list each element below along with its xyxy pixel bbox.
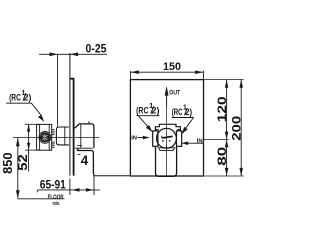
svg-text:80: 80 [215, 146, 229, 165]
150 arrow right [195, 70, 203, 74]
dimension 65-91 line [37, 190, 100, 192]
handle base divider line [80, 124, 82, 148]
svg-text:OUT: OUT [169, 90, 180, 97]
dimension 850 line [17, 138, 19, 198]
120 arrow up [225, 80, 229, 88]
65-91 extension right [93, 176, 95, 195]
plate bottom edge extension to side view [94, 175, 131, 177]
svg-text:IN: IN [131, 136, 137, 142]
65-91 arrow left [72, 188, 80, 192]
svg-text:120: 120 [215, 96, 229, 122]
svg-text:min.: min. [53, 201, 61, 207]
52 arrow down [27, 143, 30, 150]
80 arrow down [225, 168, 229, 176]
svg-text:150: 150 [163, 61, 181, 73]
svg-text:IN: IN [197, 139, 203, 145]
svg-text:4: 4 [81, 153, 89, 168]
leader RC1/2 front-left: underline + arrow [137, 116, 160, 132]
valve bracket left tab [153, 131, 158, 146]
valve bracket top cap [155, 124, 180, 131]
65-91 extension left [69, 179, 71, 196]
wall line [69, 53, 71, 176]
120 arrow down at center tick [225, 132, 229, 140]
52 arrow up [27, 124, 30, 131]
dimension 150 line [130, 71, 203, 73]
IN right arrow [188, 142, 203, 144]
850 arrow up [16, 138, 20, 146]
svg-text:65-91: 65-91 [40, 178, 66, 192]
outlet pipe (front) [156, 146, 177, 176]
svg-text:850: 850 [1, 152, 15, 174]
handle housing bottom edge [75, 147, 93, 149]
svg-text:52: 52 [16, 154, 30, 171]
svg-text:0-25: 0-25 [86, 43, 108, 55]
handle lever blade [77, 148, 94, 176]
cartridge screw dots [162, 140, 164, 142]
wall plate (side view, thick front face) [70, 79, 74, 176]
threaded inlet circle [39, 132, 51, 144]
150 arrow left [131, 70, 139, 74]
65-91 arrow right [86, 188, 94, 192]
leader RC1/2 front-right: underline + arrow [172, 118, 194, 134]
850 arrow down [16, 190, 20, 198]
dimension 120/80 inner line [226, 80, 228, 176]
floor line [17, 198, 64, 200]
cartridge bottom tick [166, 146, 168, 149]
handle inner detail line [77, 145, 82, 147]
dimension 52 line [28, 124, 30, 171]
middle extension line (valve center) [204, 138, 230, 140]
valve bottom shoulder [158, 148, 176, 151]
bottom extension line to vertical dims [204, 175, 244, 177]
valve cartridge circle [157, 128, 177, 148]
handle housing (side) [75, 124, 94, 148]
80 arrow up at center tick [225, 140, 229, 148]
valve body block (side) [56, 127, 69, 145]
leader RC1/2 side view: underline + arrow [6, 103, 41, 115]
svg-text:200: 200 [229, 115, 243, 140]
inlet union block [37, 124, 52, 150]
200 arrow up [239, 80, 243, 88]
vertical centerline front view [166, 95, 168, 176]
IN left arrow [137, 137, 144, 139]
150 extension right [203, 71, 205, 80]
label RC1/2 side view [9, 88, 31, 103]
union nut ribs [52, 130, 55, 148]
150 extension left [129, 71, 131, 80]
leader tick for 4 [77, 154, 80, 156]
valve body back face line [64, 127, 66, 145]
dimension 0-25 arrow right (points left at wall line) [70, 52, 78, 56]
dimension 0-25 line [39, 53, 107, 55]
200 arrow down [239, 168, 243, 176]
pipe end extension line [57, 54, 59, 127]
label RC1/2 front left [136, 101, 159, 115]
dimension 0-25 arrow left (points right at pipe end line) [49, 52, 57, 56]
cartridge slot lever [162, 136, 173, 138]
handle top tick [88, 121, 90, 124]
top extension line to vertical dims [204, 79, 244, 81]
52 tick bottom [25, 149, 39, 151]
label RC1/2 front right [172, 104, 192, 117]
valve bracket right tab [177, 131, 182, 146]
dimension 200 outer line [240, 80, 242, 176]
OUT arrow [166, 94, 168, 108]
52 tick top [25, 123, 39, 125]
wall plate front [130, 80, 203, 176]
horizontal centerline [13, 137, 99, 139]
